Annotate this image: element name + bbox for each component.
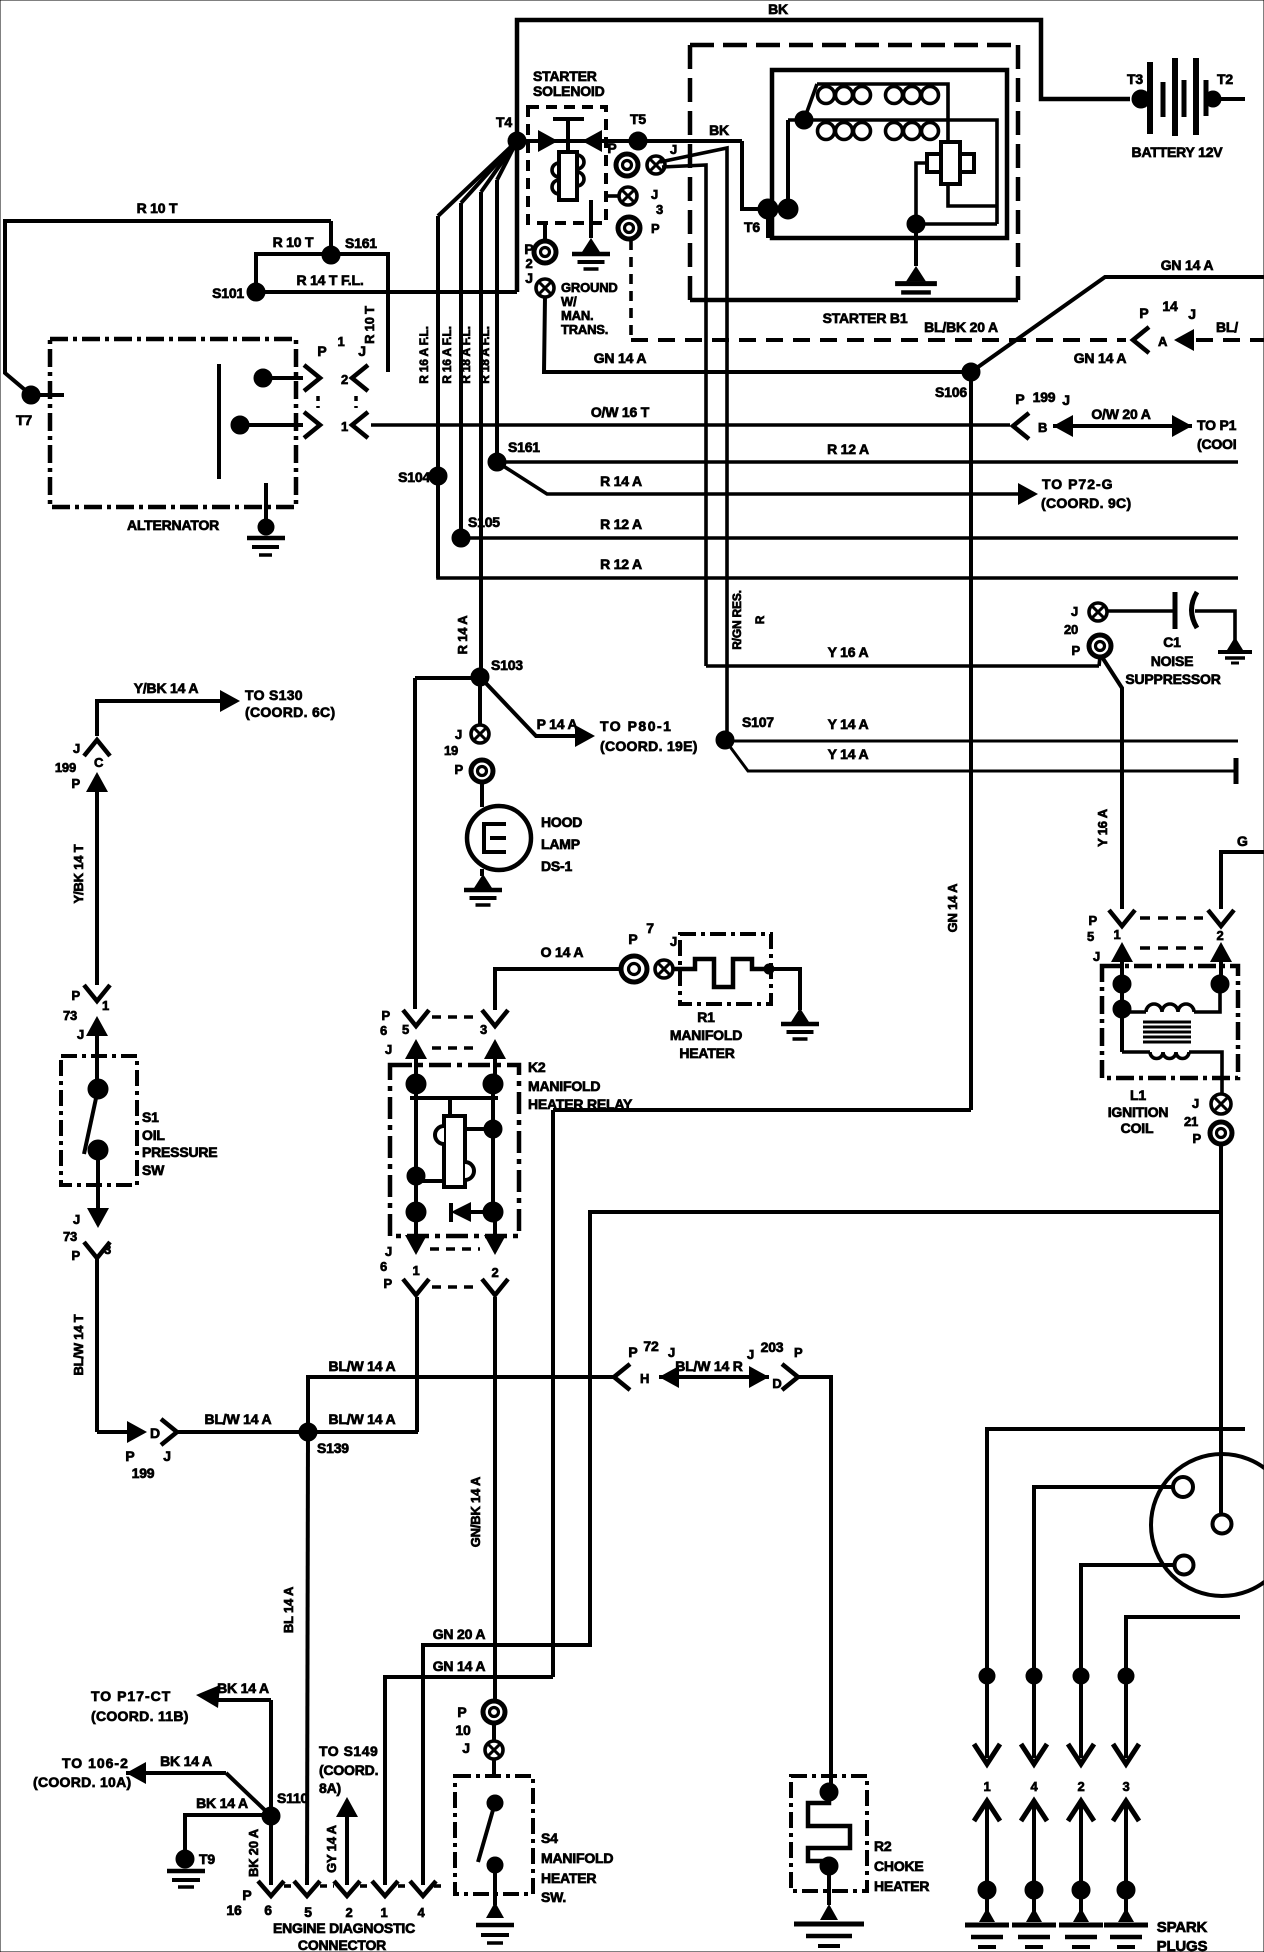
svg-text:TO P72-G: TO P72-G (1042, 476, 1114, 492)
svg-text:R 18 A F.L.: R 18 A F.L. (478, 326, 492, 384)
svg-text:2: 2 (1077, 1779, 1084, 1794)
svg-text:OIL: OIL (142, 1127, 165, 1143)
svg-text:BK: BK (709, 122, 729, 138)
svg-text:(COORD.: (COORD. (319, 1762, 378, 1778)
svg-text:1: 1 (337, 334, 344, 349)
svg-text:P 14 A: P 14 A (537, 716, 578, 732)
svg-text:1: 1 (1113, 927, 1120, 942)
svg-text:T9: T9 (199, 1851, 215, 1867)
svg-text:TO S149: TO S149 (319, 1743, 378, 1759)
svg-text:(COORD. 11B): (COORD. 11B) (91, 1708, 189, 1724)
svg-text:(COORD. 6C): (COORD. 6C) (245, 704, 335, 720)
svg-text:O 14 A: O 14 A (541, 944, 584, 960)
svg-text:(COORD. 19E): (COORD. 19E) (600, 738, 698, 754)
svg-text:TO 106-2: TO 106-2 (62, 1755, 129, 1771)
svg-text:Y 14 A: Y 14 A (828, 746, 869, 762)
svg-text:J: J (73, 1212, 80, 1227)
svg-text:O/W 20 A: O/W 20 A (1091, 406, 1150, 422)
svg-text:C: C (94, 755, 104, 770)
svg-text:T5: T5 (630, 111, 646, 127)
svg-text:BK 20 A: BK 20 A (246, 1828, 261, 1877)
svg-text:HEATER: HEATER (541, 1870, 596, 1886)
svg-text:J: J (77, 1027, 84, 1042)
svg-text:G: G (1237, 833, 1248, 849)
svg-text:HEATER: HEATER (679, 1045, 734, 1061)
svg-text:SUPPRESSOR: SUPPRESSOR (1125, 671, 1220, 687)
svg-text:P: P (1015, 391, 1024, 407)
svg-text:NOISE: NOISE (1151, 653, 1194, 669)
svg-text:DS-1: DS-1 (541, 858, 573, 874)
svg-text:73: 73 (63, 1008, 77, 1023)
svg-text:S161: S161 (345, 235, 377, 251)
svg-text:PRESSURE: PRESSURE (142, 1144, 217, 1160)
svg-text:TO P17-CT: TO P17-CT (91, 1688, 171, 1704)
svg-text:R 14 T F.L.: R 14 T F.L. (296, 272, 363, 288)
svg-text:J: J (1062, 392, 1070, 408)
svg-text:P: P (317, 343, 326, 359)
svg-text:CHOKE: CHOKE (874, 1858, 924, 1874)
svg-text:J: J (747, 1347, 754, 1362)
svg-text:TO P80-1: TO P80-1 (600, 718, 672, 734)
svg-text:J: J (385, 1042, 392, 1057)
svg-text:T3: T3 (1127, 71, 1143, 87)
svg-text:L1: L1 (1130, 1087, 1146, 1103)
svg-text:S139: S139 (317, 1440, 349, 1456)
svg-text:P: P (125, 1448, 134, 1464)
svg-text:ENGINE DIAGNOSTIC: ENGINE DIAGNOSTIC (273, 1920, 415, 1936)
svg-text:S101: S101 (212, 285, 244, 301)
svg-text:Y/BK 14 A: Y/BK 14 A (134, 680, 199, 696)
svg-text:6: 6 (380, 1023, 387, 1038)
svg-text:GN 14 A: GN 14 A (1074, 350, 1127, 366)
svg-text:D: D (772, 1376, 781, 1391)
svg-text:Y/BK 14 T: Y/BK 14 T (71, 844, 86, 903)
svg-text:TO S130: TO S130 (245, 687, 303, 703)
svg-text:S4: S4 (541, 1830, 558, 1846)
svg-text:R 12 A: R 12 A (600, 556, 642, 572)
svg-text:P: P (794, 1345, 803, 1360)
svg-text:2: 2 (491, 1265, 498, 1280)
svg-text:S105: S105 (468, 514, 500, 530)
svg-text:21: 21 (1184, 1114, 1198, 1129)
svg-text:R 16 A F.L.: R 16 A F.L. (417, 326, 431, 384)
svg-text:5: 5 (304, 1904, 312, 1920)
svg-text:HOOD: HOOD (541, 814, 582, 830)
svg-text:T4: T4 (496, 114, 512, 130)
svg-text:HEATER: HEATER (874, 1878, 929, 1894)
svg-text:P: P (455, 762, 464, 777)
svg-text:SW: SW (142, 1162, 165, 1178)
svg-text:P: P (628, 931, 637, 947)
svg-text:MANIFOLD: MANIFOLD (541, 1850, 613, 1866)
svg-text:D: D (150, 1425, 160, 1441)
svg-text:2: 2 (345, 1905, 352, 1920)
svg-text:P: P (524, 241, 533, 257)
svg-text:R 12 A: R 12 A (827, 441, 869, 457)
svg-text:R 10 T: R 10 T (362, 306, 377, 344)
svg-text:BK 14 A: BK 14 A (196, 1795, 248, 1811)
svg-text:S103: S103 (491, 657, 523, 673)
svg-text:1: 1 (102, 998, 109, 1013)
svg-text:J: J (462, 1740, 470, 1756)
svg-text:19: 19 (444, 743, 458, 758)
svg-text:S161: S161 (508, 439, 540, 455)
svg-text:3: 3 (656, 202, 663, 217)
svg-text:J: J (651, 187, 658, 202)
svg-text:TRANS.: TRANS. (561, 322, 608, 337)
svg-text:1: 1 (341, 419, 348, 434)
svg-text:BL/BK 20 A: BL/BK 20 A (924, 319, 998, 335)
svg-text:S107: S107 (742, 714, 774, 730)
svg-text:R/GN RES.: R/GN RES. (730, 590, 744, 650)
svg-text:20: 20 (1064, 622, 1078, 637)
svg-text:P: P (607, 140, 616, 156)
svg-text:GY 14 A: GY 14 A (324, 1824, 339, 1873)
svg-text:GN 14 A: GN 14 A (945, 883, 960, 933)
svg-text:3: 3 (480, 1022, 487, 1037)
svg-text:S104: S104 (398, 469, 430, 485)
svg-text:199: 199 (1033, 389, 1056, 405)
svg-text:P: P (457, 1704, 466, 1720)
svg-text:COIL: COIL (1121, 1120, 1154, 1136)
svg-text:2: 2 (341, 372, 348, 387)
svg-text:4: 4 (1030, 1779, 1038, 1794)
svg-text:72: 72 (643, 1338, 659, 1354)
svg-text:GN 20 A: GN 20 A (433, 1626, 486, 1642)
svg-text:8A): 8A) (319, 1780, 341, 1796)
svg-text:R2: R2 (874, 1838, 892, 1854)
svg-text:1: 1 (983, 1779, 990, 1794)
svg-text:T6: T6 (744, 219, 760, 235)
svg-text:J: J (525, 270, 533, 286)
svg-text:T7: T7 (16, 412, 32, 428)
svg-text:P: P (1089, 913, 1098, 928)
svg-text:SOLENOID: SOLENOID (533, 83, 605, 99)
svg-text:GN 14 A: GN 14 A (433, 1658, 486, 1674)
svg-text:6: 6 (264, 1902, 272, 1918)
svg-text:J: J (73, 741, 80, 756)
svg-text:R 14 A: R 14 A (600, 473, 642, 489)
svg-text:16: 16 (226, 1902, 242, 1918)
svg-text:P: P (72, 1248, 81, 1263)
svg-text:R 18 A F.L.: R 18 A F.L. (459, 326, 473, 384)
svg-text:3: 3 (104, 1242, 111, 1257)
svg-text:MANIFOLD: MANIFOLD (670, 1027, 742, 1043)
svg-text:C1: C1 (1163, 634, 1181, 650)
svg-text:(COORD. 10A): (COORD. 10A) (33, 1774, 132, 1790)
svg-text:4: 4 (417, 1905, 425, 1920)
svg-text:S106: S106 (935, 384, 967, 400)
svg-text:P: P (628, 1344, 637, 1360)
svg-text:BL/W 14 A: BL/W 14 A (329, 1411, 396, 1427)
svg-text:R 10 T: R 10 T (137, 200, 178, 216)
svg-text:P: P (651, 221, 660, 236)
svg-text:3: 3 (1122, 1779, 1129, 1794)
svg-text:GN 14 A: GN 14 A (594, 350, 647, 366)
svg-text:S110: S110 (277, 1790, 309, 1806)
svg-text:R1: R1 (697, 1009, 715, 1025)
svg-text:J: J (385, 1244, 392, 1259)
svg-text:P: P (72, 776, 81, 791)
svg-text:MANIFOLD: MANIFOLD (528, 1078, 600, 1094)
svg-text:BK 14 A: BK 14 A (217, 1680, 269, 1696)
svg-text:J: J (455, 727, 462, 742)
svg-text:J: J (1071, 604, 1078, 619)
svg-text:BATTERY 12V: BATTERY 12V (1132, 144, 1224, 160)
svg-text:J: J (1192, 1096, 1199, 1111)
svg-text:O/W 16 T: O/W 16 T (591, 404, 650, 420)
svg-text:R: R (753, 615, 767, 624)
svg-text:GROUND: GROUND (561, 280, 618, 295)
svg-text:5: 5 (402, 1022, 409, 1037)
svg-text:K2: K2 (528, 1059, 546, 1075)
svg-text:199: 199 (132, 1465, 155, 1481)
svg-text:J: J (1093, 949, 1100, 964)
svg-text:199: 199 (55, 760, 76, 775)
svg-text:Y 16 A: Y 16 A (828, 644, 869, 660)
svg-text:P: P (242, 1887, 251, 1903)
svg-text:SPARK: SPARK (1157, 1919, 1208, 1936)
svg-text:A: A (1158, 334, 1168, 349)
svg-text:BL/W 14 A: BL/W 14 A (205, 1411, 272, 1427)
svg-text:6: 6 (380, 1259, 387, 1274)
svg-text:Y 14 A: Y 14 A (828, 716, 869, 732)
svg-text:J: J (1188, 306, 1196, 322)
svg-text:BL 14 A: BL 14 A (281, 1586, 296, 1633)
svg-text:BL/W 14 A: BL/W 14 A (329, 1358, 396, 1374)
svg-text:J: J (670, 142, 677, 157)
svg-text:J: J (163, 1448, 171, 1464)
svg-text:(COORD. 9C): (COORD. 9C) (1041, 495, 1131, 511)
svg-text:BL/: BL/ (1216, 319, 1238, 335)
svg-text:SW.: SW. (541, 1889, 566, 1905)
svg-text:CONNECTOR: CONNECTOR (298, 1937, 386, 1952)
svg-text:BK: BK (768, 1, 788, 17)
svg-text:BL/W 14 R: BL/W 14 R (675, 1358, 743, 1374)
svg-text:P: P (1193, 1131, 1202, 1146)
svg-text:73: 73 (63, 1229, 77, 1244)
svg-text:BK 14 A: BK 14 A (160, 1753, 212, 1769)
svg-text:1: 1 (412, 1263, 419, 1278)
svg-text:GN 14 A: GN 14 A (1161, 257, 1214, 273)
svg-text:STARTER B1: STARTER B1 (823, 310, 908, 326)
svg-text:P: P (72, 988, 81, 1003)
svg-text:BL/W 14 T: BL/W 14 T (71, 1314, 86, 1375)
svg-text:PLUGS: PLUGS (1157, 1938, 1208, 1952)
svg-text:J: J (670, 934, 677, 949)
svg-text:LAMP: LAMP (541, 836, 580, 852)
svg-text:H: H (640, 1371, 649, 1386)
svg-text:J: J (358, 343, 366, 359)
svg-text:R 10 T: R 10 T (273, 234, 314, 250)
svg-text:MAN.: MAN. (561, 308, 593, 323)
svg-text:IGNITION: IGNITION (1108, 1104, 1169, 1120)
svg-text:2: 2 (1216, 928, 1223, 943)
svg-text:(COOI: (COOI (1197, 436, 1236, 452)
svg-text:S1: S1 (142, 1109, 159, 1125)
svg-text:P: P (1139, 305, 1148, 321)
svg-text:Y 16 A: Y 16 A (1095, 808, 1110, 847)
svg-text:STARTER: STARTER (533, 68, 597, 84)
svg-text:J: J (668, 1345, 675, 1360)
svg-text:2: 2 (525, 256, 532, 271)
svg-text:7: 7 (646, 920, 654, 936)
svg-text:R 16 A F.L.: R 16 A F.L. (440, 326, 454, 384)
svg-text:ALTERNATOR: ALTERNATOR (127, 517, 219, 533)
svg-text:T2: T2 (1217, 71, 1233, 87)
svg-text:P: P (382, 1008, 391, 1023)
svg-text:10: 10 (455, 1722, 471, 1738)
svg-text:P: P (1072, 643, 1081, 658)
svg-text:R 14 A: R 14 A (455, 615, 470, 655)
svg-text:203: 203 (761, 1339, 784, 1355)
svg-text:5: 5 (1087, 929, 1094, 944)
svg-text:GN/BK 14 A: GN/BK 14 A (468, 1476, 483, 1547)
svg-text:R 12 A: R 12 A (600, 516, 642, 532)
svg-text:P: P (384, 1276, 393, 1291)
svg-text:B: B (1038, 420, 1047, 435)
svg-text:TO P1: TO P1 (1197, 417, 1237, 433)
svg-text:1: 1 (380, 1905, 387, 1920)
svg-text:W/: W/ (561, 294, 577, 309)
svg-text:14: 14 (1162, 298, 1178, 314)
